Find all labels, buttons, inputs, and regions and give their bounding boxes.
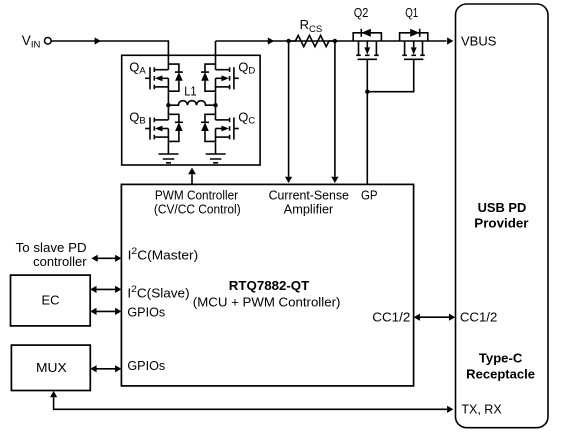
svg-text:(MCU + PWM Controller): (MCU + PWM Controller) <box>193 295 341 309</box>
wire Q2 gate to GP <box>366 59 368 184</box>
resistor RCS <box>289 35 335 46</box>
svg-text:Q1: Q1 <box>405 6 418 20</box>
node SW2 junction <box>213 103 217 107</box>
svg-text:PWM Controller: PWM Controller <box>155 189 238 203</box>
wire MUX to GPIOs <box>95 368 117 370</box>
transistor QB <box>145 111 183 143</box>
node RCS left junction <box>286 39 290 43</box>
inductor L1 <box>168 101 215 106</box>
node SW1 junction <box>166 103 170 107</box>
wire EC to GPIOs <box>95 310 117 312</box>
svg-text:Receptacle: Receptacle <box>466 367 535 382</box>
wire node SW1 to QB drain <box>167 105 169 111</box>
svg-text:I2C(Slave): I2C(Slave) <box>127 284 189 301</box>
svg-text:Q2: Q2 <box>354 6 369 20</box>
arrowhead PWM controller to power stage <box>188 168 196 175</box>
ground right <box>206 154 226 163</box>
wire power stage output to VBUS <box>216 40 447 42</box>
svg-text:L1: L1 <box>184 84 196 98</box>
wire PWM controller to power stage <box>191 174 193 184</box>
wire RCS right to current-sense amplifier <box>334 41 336 177</box>
svg-text:VBUS: VBUS <box>461 34 496 48</box>
wire TX RX <box>54 397 448 409</box>
wire VIN to power stage <box>51 41 168 61</box>
arrowhead into MUX <box>50 391 57 397</box>
svg-text:MUX: MUX <box>36 360 67 375</box>
wire I2C master bus <box>96 257 117 259</box>
svg-text:GP: GP <box>361 189 378 203</box>
arrowhead into VBUS <box>447 37 453 44</box>
svg-text:EC: EC <box>42 293 60 308</box>
svg-text:RTQ7882-QT: RTQ7882-QT <box>229 278 309 293</box>
wire QB source to ground <box>167 143 169 154</box>
arrowhead into TX RX <box>447 406 453 413</box>
svg-text:Provider: Provider <box>474 215 528 230</box>
svg-text:I2C(Master): I2C(Master) <box>128 246 199 263</box>
svg-text:GPIOs: GPIOs <box>127 359 165 373</box>
wire QD drain to top <box>215 41 217 61</box>
wire Q1 gate <box>367 59 413 91</box>
svg-text:USB PD: USB PD <box>478 200 527 215</box>
block MUX <box>11 345 90 390</box>
node RCS right junction <box>333 39 337 43</box>
svg-text:CC1/2: CC1/2 <box>372 311 410 325</box>
svg-text:Amplifier: Amplifier <box>284 202 334 216</box>
arrowhead into current-sense left <box>285 177 292 183</box>
svg-text:Current-Sense: Current-Sense <box>269 189 349 203</box>
svg-text:CC1/2: CC1/2 <box>460 311 497 325</box>
wire EC to I2C slave <box>95 288 117 290</box>
wire QC source to ground <box>215 143 217 154</box>
svg-text:To slave PD: To slave PD <box>16 241 87 255</box>
arrowhead on VIN wire <box>95 37 101 44</box>
node gate junction <box>365 90 369 94</box>
transistor QA <box>145 61 183 93</box>
transistor QC <box>201 111 239 143</box>
svg-text:GPIOs: GPIOs <box>127 306 165 320</box>
wire RCS left to current-sense amplifier <box>288 41 290 177</box>
transistor QD <box>201 61 239 93</box>
transistor Q2 <box>353 29 381 60</box>
svg-text:(CV/CC Control): (CV/CC Control) <box>154 202 241 216</box>
power stage box <box>122 55 260 165</box>
wire QA source to node SW1 <box>167 93 169 106</box>
svg-text:controller: controller <box>33 255 87 269</box>
wire node SW2 to QC drain <box>215 105 217 111</box>
block RTQ7882-QT <box>121 184 413 386</box>
wire QD source to node SW2 <box>215 93 217 106</box>
block EC <box>11 275 91 326</box>
ground left <box>159 154 179 163</box>
node VIN terminal <box>45 38 52 45</box>
svg-text:Type-C: Type-C <box>479 350 523 365</box>
arrowhead after power stage <box>268 37 274 44</box>
wire CC1/2 bus <box>419 316 451 318</box>
svg-text:TX, RX: TX, RX <box>461 402 502 416</box>
transistor Q1 <box>400 29 428 60</box>
arrowhead into current-sense right <box>331 177 338 183</box>
block Type-C receptacle <box>456 4 549 428</box>
